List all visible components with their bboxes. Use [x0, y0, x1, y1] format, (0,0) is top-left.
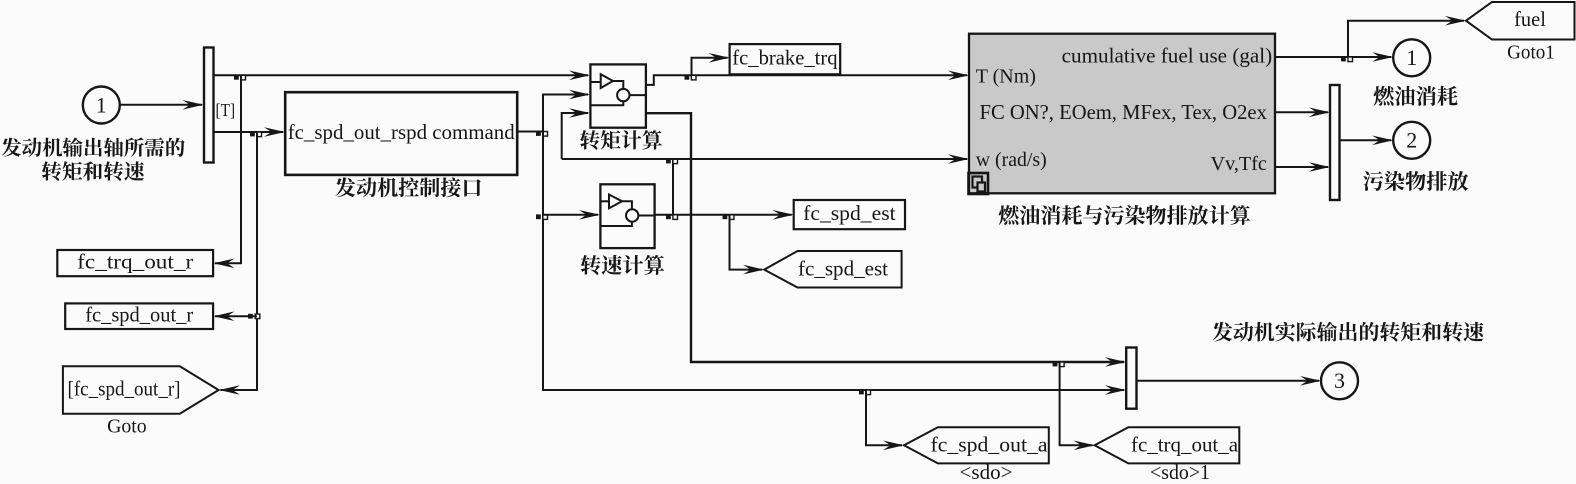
svg-text:Vv,Tfc: Vv,Tfc — [1211, 153, 1268, 175]
label: outport3 label — [1213, 322, 1484, 342]
wire: down to fc_spd_out_a — [866, 390, 902, 445]
wire: inport1 to bus selector — [120, 104, 202, 106]
arrowhead: into mux bar2 input1 — [1309, 108, 1330, 118]
wire: down to fc_trq_out_a — [1060, 362, 1093, 445]
label: torque calc label — [580, 130, 662, 150]
svg-text:2: 2 — [1406, 128, 1417, 153]
arrowhead: into Goto tag — [219, 385, 240, 395]
arrowhead: into engine control interface block — [264, 127, 285, 137]
label: outport1 label — [1374, 86, 1458, 106]
svg-text:cumulative fuel use (gal): cumulative fuel use (gal) — [1062, 45, 1273, 67]
block: display fc_spd_out_r — [65, 303, 213, 329]
wire: feedback to torque-calc in3 — [562, 113, 588, 159]
wire: down to fc_spd_est tag — [730, 215, 763, 270]
wire: bar2 to outport 2 — [1340, 139, 1392, 141]
arrowhead: into fc_spd_out_r — [214, 311, 235, 321]
block: speed calc subsystem 转速计算 — [600, 184, 654, 248]
svg-text:fc_trq_out_r: fc_trq_out_r — [77, 249, 193, 273]
wire: bar3 to outport 3 — [1137, 380, 1320, 382]
arrowhead: into outport 3 — [1300, 376, 1321, 386]
goto tag: fc_spd_out_a goto tag — [904, 427, 1049, 463]
svg-text:[fc_spd_out_r]: [fc_spd_out_r] — [68, 377, 181, 401]
port circle 3: outport 3 actual torque+speed — [1321, 362, 1358, 399]
wire: Vv,Tfc output to mux bar2 — [1275, 166, 1328, 168]
arrowhead: into mux bar3 input1 — [1105, 357, 1126, 367]
arrowhead: into fc_trq_out_a tag — [1074, 441, 1095, 451]
wire: command up to torque-calc in2 — [543, 95, 588, 132]
svg-text:fc_brake_trq: fc_brake_trq — [732, 45, 838, 69]
block: display fc_brake_trq — [730, 44, 841, 74]
svg-text:3: 3 — [1334, 368, 1345, 393]
svg-text:fc_spd_est: fc_spd_est — [803, 201, 896, 225]
svg-text:<sdo>: <sdo> — [960, 460, 1013, 484]
wire: command down and right to mux bar3 in2 — [543, 132, 1124, 391]
label: gray block label — [999, 205, 1250, 225]
model reference icon (bottom-left corner of gray block) — [969, 173, 989, 194]
port circle 2: outport 2 emissions — [1393, 122, 1430, 159]
junction: branch to fc_trq_out_a tag — [1053, 362, 1058, 367]
wire: to speed-calc input — [543, 214, 598, 216]
wire: fuel use output — [1275, 56, 1391, 58]
junction: branch to speed-calc input — [536, 214, 541, 219]
wire: branch to fc_spd_out_r — [215, 315, 257, 317]
svg-text:<sdo>1: <sdo>1 — [1150, 460, 1210, 484]
arrowhead: into fc_spd_est tag — [743, 265, 764, 275]
svg-text:fuel: fuel — [1514, 7, 1546, 31]
wire: up to fuel goto tag — [1348, 21, 1464, 57]
junction: branch to fuel goto tag — [1341, 57, 1346, 62]
block: fuel consumption and emissions calc block — [969, 34, 1275, 194]
block: display fc_spd_est — [794, 200, 905, 229]
wire: command output — [517, 131, 543, 133]
port circle 1: outport 1 fuel consumption — [1393, 39, 1430, 76]
junction: branch to fc_spd_est tag — [723, 214, 728, 219]
junction: branch to fc_spd_out_a tag — [859, 390, 864, 395]
svg-text:1: 1 — [1406, 45, 1417, 70]
block: display fc_trq_out_r — [57, 250, 213, 276]
wire: branch up to fc_brake_trq — [692, 58, 728, 76]
arrowhead: into fuel-emissions block w (rad/s) — [948, 154, 969, 164]
arrowhead: into fc_spd_est box — [773, 210, 794, 220]
speed calc icon — [600, 195, 654, 227]
arrowhead: into outport 1 — [1372, 52, 1393, 62]
arrowhead: into fuel tag — [1445, 16, 1466, 26]
arrowhead: into torque-calc input1 — [569, 71, 590, 81]
wire: torque output to gray block T input — [646, 75, 967, 85]
port circle 1: inport 1 requested torque+speed — [83, 87, 120, 124]
arrowhead: into fc_brake_trq — [709, 53, 730, 63]
arrowhead: into torque-calc input3 — [569, 108, 590, 118]
arrowhead: into speed-calc input — [579, 210, 600, 220]
wire: speed to gray block w input — [562, 158, 967, 160]
svg-text:w (rad/s): w (rad/s) — [976, 149, 1047, 171]
junction: branch to fc_spd_out_r — [248, 314, 253, 319]
arrowhead: into bus selector bar1 — [183, 100, 204, 110]
arrowhead: into outport 2 — [1372, 136, 1393, 146]
svg-text:Goto: Goto — [107, 416, 147, 438]
wire: speed feedback up — [672, 159, 674, 215]
block: torque calc subsystem 转矩计算 — [590, 64, 646, 127]
goto tag: fuel Goto1 — [1466, 2, 1575, 40]
junction: speed output up branch — [666, 214, 671, 219]
wire: speed output to fc_spd_est — [655, 214, 792, 216]
label: inport1 label line1 — [2, 137, 185, 156]
svg-text:T (Nm): T (Nm) — [976, 66, 1036, 88]
label: outport2 label — [1363, 171, 1468, 191]
torque calc icon — [590, 74, 646, 105]
block: engine control interface block — [285, 92, 517, 175]
junction: command branch — [536, 131, 541, 136]
block: mux bar2 — [1330, 85, 1340, 200]
wire: emissions output to mux bar2 — [1275, 111, 1328, 113]
goto tag: fc_trq_out_a goto tag — [1095, 427, 1240, 463]
svg-text:1: 1 — [96, 92, 107, 117]
wire: branch down to Goto tag — [221, 132, 258, 390]
block: mux bar3 — [1126, 348, 1136, 409]
goto tag: fc_spd_est goto tag — [764, 251, 901, 288]
junction: branch to fc_trq_out_r display — [234, 75, 239, 80]
wire: branch down to fc_trq_out_r — [215, 75, 241, 263]
arrowhead: into mux bar3 input2 — [1105, 385, 1126, 395]
svg-text:fc_trq_out_a: fc_trq_out_a — [1131, 433, 1239, 457]
arrowhead: into torque-calc input2 — [569, 90, 590, 100]
svg-text:FC ON?, EOem, MFex, Tex, O2ex: FC ON?, EOem, MFex, Tex, O2ex — [980, 102, 1268, 124]
wire: bar1 requested torque to torque-calc in1 — [214, 74, 589, 76]
wire: torque down to mux bar3 input1 — [646, 113, 1124, 362]
junction: w-line tee — [666, 159, 671, 164]
svg-text:fc_spd_est: fc_spd_est — [798, 257, 888, 281]
svg-text:fc_spd_out_a: fc_spd_out_a — [931, 433, 1049, 457]
junction: branch to fc_brake_trq — [685, 75, 690, 80]
arrowhead: into mux bar2 input2 — [1309, 162, 1330, 172]
label: control interface label — [335, 177, 480, 197]
arrowhead: into fc_trq_out_r — [214, 259, 235, 269]
label: speed calc label — [581, 255, 664, 275]
junction: branch to fc_spd_out_r / Goto — [250, 132, 255, 137]
svg-text:fc_spd_out_r: fc_spd_out_r — [85, 303, 193, 327]
wire: bar1 requested speed to control interface — [214, 131, 284, 133]
label: inport1 label line2 — [42, 161, 144, 181]
goto tag: [fc_spd_out_r] Goto — [63, 366, 219, 413]
svg-text:[T]: [T] — [216, 100, 236, 120]
block: bus selector bar1 (demux) — [204, 48, 214, 163]
svg-text:fc_spd_out_rspd command: fc_spd_out_rspd command — [288, 120, 515, 144]
svg-text:Goto1: Goto1 — [1507, 42, 1555, 64]
arrowhead: into fc_spd_out_a tag — [883, 441, 904, 451]
arrowhead: into fuel-emissions block T (Nm) — [948, 71, 969, 81]
